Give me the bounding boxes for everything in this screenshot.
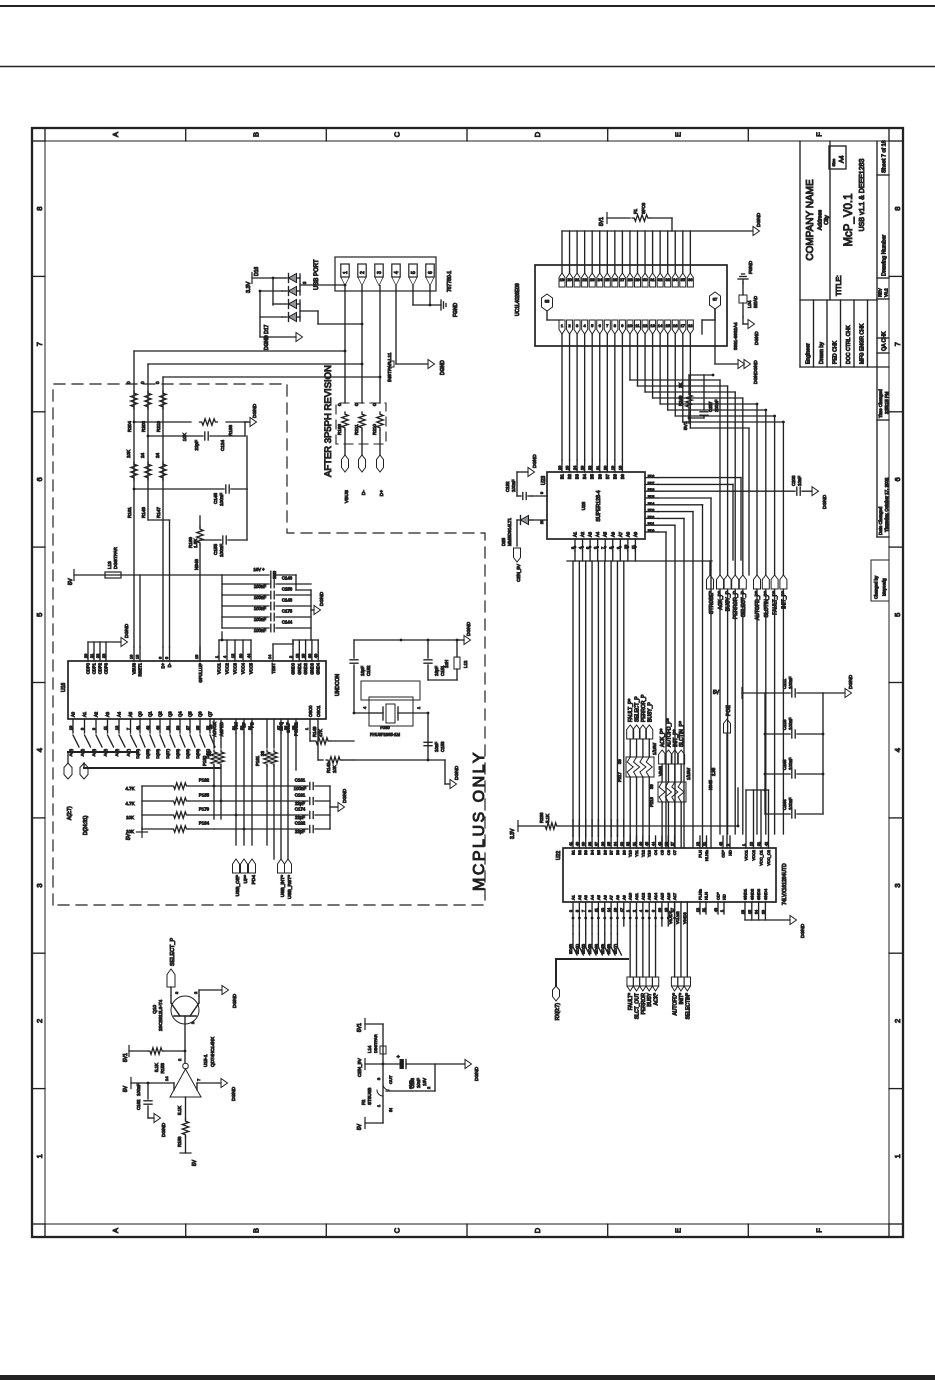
U23 left pins A1-A9: [567, 531, 712, 561]
svg-text:BUSY_P: BUSY_P: [726, 590, 732, 611]
svg-text:B8: B8: [612, 473, 617, 479]
svg-text:10: 10: [69, 726, 73, 730]
svg-text:48: 48: [719, 842, 723, 846]
diode D17 (dual): [264, 300, 297, 351]
resistor R166 0: [337, 403, 348, 435]
svg-text:PD6: PD6: [648, 488, 655, 492]
svg-text:2: 2: [177, 1058, 182, 1061]
svg-text:18pF: 18pF: [360, 666, 365, 676]
svg-text:2: 2: [893, 1019, 902, 1023]
svg-text:C145: C145: [213, 493, 218, 504]
svg-text:6: 6: [893, 477, 902, 481]
svg-text:0: 0: [337, 403, 342, 406]
sheet inner border: [45, 141, 889, 1224]
svg-text:VCLM2: VCLM2: [676, 911, 680, 924]
pin 38 shield: [542, 294, 563, 320]
svg-text:33: 33: [207, 751, 212, 756]
svg-text:SFC8: SFC8: [641, 202, 646, 214]
svg-text:10uF: 10uF: [416, 1078, 421, 1088]
svg-text:15: 15: [664, 908, 668, 912]
svg-text:26: 26: [558, 466, 562, 470]
ground DGND (CN1 pins): [753, 212, 762, 235]
pin POE: [724, 705, 733, 848]
svg-text:37: 37: [594, 842, 598, 846]
svg-text:PD1: PD1: [648, 522, 655, 526]
svg-text:MMBD914LT1: MMBD914LT1: [507, 517, 512, 546]
svg-text:32: 32: [240, 726, 244, 730]
svg-text:Mayoorig: Mayoorig: [882, 578, 887, 596]
svg-text:12: 12: [696, 908, 700, 912]
wire D- row: [148, 286, 363, 404]
capacitor C257 100nF: [688, 375, 719, 419]
resistor R204 0: [126, 381, 137, 432]
svg-text:100nF: 100nF: [788, 757, 793, 770]
svg-text:9: 9: [621, 323, 624, 328]
svg-text:CDP1: CDP1: [92, 662, 97, 674]
svg-text:P217: P217: [617, 772, 622, 782]
resistor R238 5.1K: [539, 788, 739, 829]
wire U22 A10-A17 to bottom pins: [0, 1379, 1, 1380]
capacitor C155 100nF: [200, 489, 247, 557]
svg-text:34: 34: [613, 842, 617, 846]
svg-text:8: 8: [893, 207, 902, 211]
svg-text:DGND: DGND: [822, 494, 828, 509]
svg-text:B9: B9: [620, 473, 625, 479]
U16 bottom pins OSC: [305, 705, 323, 760]
svg-text:USB v1.1 & DEEE1283: USB v1.1 & DEEE1283: [859, 159, 866, 232]
svg-text:5V: 5V: [713, 690, 720, 696]
svg-text:GND4: GND4: [316, 662, 321, 674]
svg-text:25: 25: [566, 466, 570, 470]
svg-text:FAULT_P*: FAULT_P*: [773, 591, 779, 615]
svg-text:ACK_P*: ACK_P*: [718, 591, 724, 610]
svg-text:13: 13: [601, 908, 605, 912]
capacitor C145 100nF: [133, 436, 247, 506]
power 3.3V (U22): [510, 821, 543, 840]
svg-text:VCC3: VCC3: [233, 662, 238, 674]
U16 pins VBUS RESET: [130, 575, 143, 677]
svg-text:4: 4: [579, 547, 583, 549]
diode D16 (dual): [254, 267, 297, 296]
svg-text:5.1K: 5.1K: [545, 814, 550, 823]
frame row ticks: [186, 128, 749, 1237]
svg-text:B3: B3: [583, 849, 588, 855]
svg-text:QA CHK: QA CHK: [882, 331, 888, 351]
svg-text:22: 22: [96, 654, 100, 658]
svg-text:7: 7: [196, 1078, 201, 1081]
svg-text:20: 20: [567, 277, 572, 282]
svg-text:CDP3: CDP3: [104, 662, 109, 674]
svg-text:B9: B9: [621, 849, 626, 855]
resistor R168 10K: [182, 419, 233, 441]
svg-text:E: E: [674, 1228, 683, 1233]
svg-text:1: 1: [343, 271, 349, 274]
svg-text:CDP2: CDP2: [98, 662, 103, 674]
svg-text:USB_INT*: USB_INT*: [280, 875, 286, 897]
svg-text:39: 39: [761, 910, 765, 914]
svg-text:16: 16: [130, 655, 134, 659]
svg-text:ACK_P*: ACK_P*: [660, 729, 666, 747]
CN1 left pin column 1-18: [559, 320, 693, 334]
pins ACK_P* AUTOFD_P* INIT_P* SLCTIN_P* (U22): [659, 718, 686, 848]
capacitor C132 100nF: [505, 472, 532, 500]
svg-text:B8: B8: [615, 849, 620, 855]
svg-text:ED(5): ED(5): [601, 943, 605, 954]
svg-text:10nF: 10nF: [797, 476, 802, 486]
svg-text:GND3: GND3: [309, 662, 314, 674]
svg-text:SLCT_OUT: SLCT_OUT: [635, 993, 641, 1019]
svg-text:20: 20: [540, 520, 544, 524]
svg-text:INIT_P*: INIT_P*: [673, 729, 679, 747]
svg-text:Q0: Q0: [138, 711, 143, 717]
svg-text:Q7: Q7: [208, 711, 213, 717]
svg-text:100nF: 100nF: [136, 1083, 141, 1096]
capacitor C153 10nF: [354, 713, 445, 761]
svg-text:27: 27: [620, 277, 625, 282]
svg-text:34: 34: [673, 277, 678, 282]
wire D+ row: [163, 286, 381, 404]
fuse F2 ST8U6B: [361, 1075, 393, 1112]
svg-text:N645: N645: [708, 779, 713, 790]
svg-text:R168: R168: [228, 425, 233, 436]
svg-text:GND0: GND0: [291, 662, 296, 674]
svg-text:5V1: 5V1: [123, 1053, 129, 1062]
svg-text:5: 5: [165, 657, 169, 659]
resistor R211 0: [354, 403, 365, 435]
svg-text:PLH: PLH: [698, 850, 703, 858]
svg-text:C5: C5: [659, 849, 664, 855]
ground DGND (C132): [528, 454, 537, 477]
svg-text:1: 1: [215, 656, 219, 658]
title block size box: [829, 146, 846, 169]
svg-text:2: 2: [360, 271, 366, 274]
svg-text:A2: A2: [580, 531, 585, 537]
svg-text:10: 10: [628, 323, 633, 328]
svg-text:22: 22: [588, 466, 592, 470]
svg-text:FHU8F1985-1M: FHU8F1985-1M: [370, 732, 401, 737]
capacitor C175 100nF: [222, 609, 311, 623]
svg-text:L13: L13: [107, 561, 112, 569]
svg-text:Y12: Y12: [640, 849, 645, 857]
svg-text:12: 12: [643, 323, 648, 328]
svg-text:19: 19: [611, 466, 615, 470]
wire net D+ to U16: [162, 377, 164, 647]
svg-text:D(24:31): D(24:31): [83, 815, 89, 835]
svg-text:9: 9: [92, 728, 96, 730]
svg-text:2SC2812L6-T4: 2SC2812L6-T4: [158, 999, 163, 1031]
svg-text:2: 2: [568, 323, 571, 328]
svg-text:BUSY: BUSY: [647, 992, 653, 1006]
svg-text:1: 1: [416, 706, 421, 709]
svg-text:18pF: 18pF: [434, 666, 439, 676]
svg-text:C7: C7: [672, 849, 677, 855]
svg-text:SELECT_P: SELECT_P: [635, 696, 641, 722]
capacitor C151 18pF: [424, 640, 445, 680]
capacitor C144 100nF: [222, 620, 311, 634]
svg-text:A7: A7: [609, 894, 614, 900]
svg-text:ACK*: ACK*: [654, 993, 660, 1005]
svg-text:R147: R147: [156, 507, 161, 518]
svg-text:22pF: 22pF: [295, 801, 305, 806]
resistor P185 4.7K: [125, 793, 214, 807]
resistor pack P218 39 1/16W: [649, 768, 691, 807]
svg-text:38: 38: [308, 654, 312, 658]
svg-text:A4: A4: [590, 894, 595, 900]
svg-text:74LVX161284UTD: 74LVX161284UTD: [782, 863, 788, 905]
svg-text:34: 34: [755, 910, 759, 914]
svg-text:MFG ENGR CHK: MFG ENGR CHK: [860, 323, 866, 364]
svg-text:HLHin: HLHin: [704, 850, 709, 861]
wire pull column joins: [213, 785, 246, 831]
svg-text:9: 9: [540, 492, 544, 494]
svg-text:10K: 10K: [126, 815, 134, 820]
svg-text:V345: V345: [658, 766, 663, 776]
ground FGND (USB shield): [441, 300, 459, 317]
svg-text:GND1: GND1: [743, 888, 748, 900]
svg-text:8: 8: [35, 207, 44, 211]
svg-text:C153: C153: [440, 741, 445, 752]
svg-text:DGND: DGND: [232, 993, 238, 1008]
svg-text:A3: A3: [105, 711, 110, 717]
U22 left pins GND1-4: [741, 888, 790, 920]
svg-text:D(25): D(25): [146, 748, 150, 758]
svg-text:36: 36: [601, 842, 605, 846]
ground DGND DGND (pin37): [738, 360, 758, 385]
svg-text:OSC1: OSC1: [316, 705, 321, 717]
power 5V1 rail (F2 out): [357, 1019, 383, 1033]
svg-text:3.3V: 3.3V: [246, 281, 252, 293]
svg-text:B4: B4: [582, 473, 587, 479]
svg-text:4: 4: [35, 748, 44, 752]
svg-text:D16: D16: [254, 267, 260, 276]
svg-text:UC1L4026E09: UC1L4026E09: [515, 283, 521, 316]
svg-text:SLCTIN_P*: SLCTIN_P*: [764, 591, 770, 617]
svg-text:36: 36: [688, 277, 693, 282]
svg-text:DBSTPAR: DBSTPAR: [373, 1034, 378, 1053]
wire U23 PD bus runs: [658, 478, 741, 848]
svg-text:ED(1): ED(1): [575, 943, 579, 954]
svg-text:DGND: DGND: [231, 1086, 237, 1101]
svg-text:2: 2: [726, 844, 730, 846]
svg-text:VCC_C2: VCC_C2: [766, 849, 771, 866]
capacitor C146 100nF: [222, 576, 311, 590]
svg-text:37: 37: [713, 297, 718, 302]
svg-text:100nF: 100nF: [788, 797, 793, 810]
svg-text:HD: HD: [728, 850, 733, 856]
svg-text:VCC5: VCC5: [249, 662, 254, 674]
svg-text:38: 38: [545, 299, 550, 304]
svg-text:30: 30: [643, 277, 648, 282]
svg-text:B4: B4: [590, 849, 595, 855]
svg-text:18: 18: [136, 655, 140, 659]
connector CN1 UC1L4026E09: [535, 265, 727, 346]
svg-text:TITLE:: TITLE:: [836, 275, 843, 296]
svg-text:5V: 5V: [68, 578, 74, 585]
svg-text:A1: A1: [82, 711, 87, 717]
svg-text:C211: C211: [782, 678, 787, 689]
svg-text:R204: R204: [127, 421, 132, 432]
svg-text:IN: IN: [388, 1108, 393, 1112]
svg-text:ED(2): ED(2): [582, 943, 586, 954]
svg-text:4.7K: 4.7K: [125, 786, 134, 791]
svg-text:P179: P179: [199, 807, 210, 812]
svg-text:PLHin: PLHin: [698, 889, 703, 900]
svg-text:McP_V0.1: McP_V0.1: [843, 193, 855, 246]
svg-text:30: 30: [239, 654, 243, 658]
svg-text:V0.2: V0.2: [884, 288, 889, 297]
svg-text:5: 5: [586, 547, 590, 549]
svg-text:26: 26: [613, 277, 618, 282]
svg-text:5V: 5V: [357, 1123, 363, 1130]
wire CN1 pins 1-9 to U23: [562, 334, 622, 460]
svg-text:11: 11: [631, 545, 635, 549]
svg-text:R153: R153: [160, 1062, 165, 1073]
svg-text:DGND: DGND: [161, 1122, 167, 1137]
ground DGND (INSTPAR): [428, 360, 446, 376]
svg-text:A8: A8: [625, 531, 630, 537]
U22 right pins VCC group: [742, 789, 771, 866]
svg-text:A3: A3: [583, 894, 588, 900]
svg-text:11: 11: [635, 323, 640, 328]
svg-text:DGND: DGND: [756, 212, 762, 227]
svg-text:V6.4DT: V6.4DT: [669, 910, 673, 924]
svg-text:F030: F030: [380, 725, 390, 730]
svg-text:11: 11: [104, 726, 108, 730]
svg-text:C244: C244: [782, 799, 787, 810]
svg-text:OD*: OD*: [716, 892, 721, 900]
dashed box AFTER REVISION: [336, 403, 386, 444]
svg-text:24: 24: [155, 452, 160, 458]
svg-text:3391-9932A4: 3391-9932A4: [733, 322, 738, 350]
svg-text:R238: R238: [539, 812, 544, 823]
IC U23 SUPER128-4: [541, 472, 645, 539]
svg-text:+: +: [396, 1055, 402, 1058]
svg-text:C132: C132: [505, 481, 510, 492]
svg-text:ED(0): ED(0): [569, 943, 573, 954]
svg-text:D-: D-: [167, 662, 172, 667]
bus entries ED(0)-ED(7): [569, 926, 628, 959]
svg-text:C: C: [392, 131, 401, 137]
svg-text:DGND: DGND: [474, 1066, 480, 1081]
svg-text:21: 21: [166, 726, 170, 730]
svg-text:DGND: DGND: [342, 788, 348, 803]
U23 top pins VCC: [532, 492, 547, 524]
svg-text:12: 12: [115, 726, 119, 730]
svg-text:35: 35: [196, 726, 200, 730]
U22 left pins A1-A17: [569, 892, 677, 926]
svg-text:100nF: 100nF: [254, 628, 267, 633]
svg-text:3: 3: [302, 281, 307, 284]
svg-text:10: 10: [624, 545, 628, 549]
svg-text:Y11: Y11: [634, 849, 639, 857]
svg-text:DGND: DGND: [754, 331, 759, 345]
pins FAULT_P* SELECT_P PERROR_P BUSY_P (U22): [627, 694, 654, 848]
svg-text:7: 7: [606, 323, 609, 328]
svg-text:R149: R149: [312, 726, 317, 737]
transistor Q10 2SC2812L6-T4: [152, 991, 199, 1051]
svg-text:10K: 10K: [126, 829, 134, 834]
svg-text:F2: F2: [361, 1099, 366, 1105]
svg-text:33: 33: [260, 751, 265, 756]
svg-text:C156: C156: [282, 587, 293, 592]
svg-text:A1: A1: [573, 531, 578, 537]
ground DGND (pull caps): [338, 788, 348, 811]
pin port RX(0:7): [553, 986, 562, 1020]
svg-text:U23: U23: [541, 476, 547, 485]
svg-text:41: 41: [569, 842, 573, 846]
svg-text:Changed by: Changed by: [874, 575, 879, 599]
svg-text:OD*: OD*: [721, 850, 726, 858]
pin SELECT_P: [167, 938, 176, 996]
wire CN1 ground comb: [562, 230, 753, 232]
svg-text:18: 18: [688, 323, 693, 328]
svg-text:GPULLUP: GPULLUP: [198, 663, 203, 683]
svg-text:2: 2: [193, 991, 198, 994]
svg-text:DGND: DGND: [454, 765, 460, 780]
ground DGND (U15): [221, 1079, 237, 1102]
svg-text:12: 12: [231, 654, 235, 658]
svg-text:23: 23: [590, 277, 595, 282]
svg-text:A0: A0: [71, 711, 76, 717]
svg-text:USB_OE*: USB_OE*: [235, 875, 241, 896]
svg-text:10K: 10K: [126, 449, 131, 458]
svg-text:2: 2: [289, 656, 293, 658]
svg-text:B5: B5: [590, 473, 595, 479]
svg-text:A6: A6: [610, 531, 615, 537]
pin 37 shield: [702, 292, 721, 334]
svg-text:21: 21: [703, 842, 707, 846]
svg-text:N646: N646: [194, 559, 199, 570]
svg-text:VBUS: VBUS: [344, 490, 350, 503]
svg-text:AFTER 3P5PH REVISION: AFTER 3P5PH REVISION: [323, 365, 334, 477]
crystal X1 shield box: [361, 681, 420, 700]
power 5V rail (F2 in): [357, 1118, 383, 1131]
svg-text:30: 30: [176, 726, 180, 730]
resistor R153 5.1K: [148, 1048, 186, 1074]
svg-text:Time Changed: Time Changed: [878, 389, 883, 418]
ground DGND (Q10): [222, 986, 238, 1009]
svg-text:PD5: PD5: [648, 495, 655, 499]
svg-text:100nF: 100nF: [294, 786, 307, 791]
svg-text:CDP0: CDP0: [86, 662, 91, 674]
ferrite bead L11: [390, 361, 394, 367]
pin port D(24:31): [80, 763, 145, 835]
svg-text:1: 1: [35, 1154, 44, 1158]
svg-text:A9: A9: [633, 531, 638, 537]
svg-text:ED(3): ED(3): [588, 943, 592, 954]
ground DGND (R142 node): [428, 760, 460, 789]
U23 bottom pins: [645, 475, 658, 533]
pin port A(2:7): [64, 752, 79, 820]
wire CN1 pins 10-18 staircase: [630, 334, 785, 575]
svg-text:R166: R166: [337, 424, 342, 435]
svg-text:VBUS: VBUS: [132, 663, 137, 675]
svg-text:42: 42: [146, 726, 150, 730]
power CEN_5V tap: [357, 1058, 383, 1077]
wire diode lower anodes to ground: [259, 290, 296, 337]
svg-text:C146: C146: [282, 576, 293, 581]
svg-text:3: 3: [174, 991, 179, 994]
capacitor C245 100nF (U22): [765, 757, 823, 778]
svg-text:A13: A13: [647, 892, 652, 900]
svg-text:VCC1: VCC1: [744, 849, 749, 860]
svg-text:A(2:7): A(2:7): [67, 806, 73, 820]
svg-text:FAULT*: FAULT*: [628, 993, 634, 1010]
svg-text:B6: B6: [602, 849, 607, 855]
svg-text:PD3: PD3: [648, 509, 655, 513]
frame column numbers 1-8: [35, 207, 902, 1159]
svg-text:5: 5: [893, 613, 902, 617]
